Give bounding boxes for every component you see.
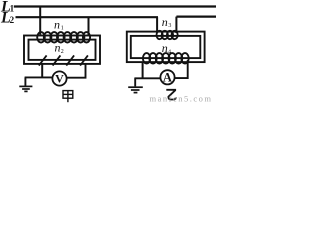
ground symbol right xyxy=(128,87,143,92)
ground stub right xyxy=(134,78,136,86)
wire row to ammeter (left) xyxy=(134,77,160,79)
label yi (乙) xyxy=(166,90,176,100)
wire L2 bus line right segment xyxy=(176,16,216,18)
svg-text:1: 1 xyxy=(61,26,64,32)
svg-text:manfen5.com: manfen5.com xyxy=(150,93,213,103)
wire from L1 down to coil n1 left end xyxy=(39,7,41,35)
transformer T1 core inner rectangle xyxy=(29,40,96,60)
wire L1 bus line xyxy=(14,5,216,7)
wire from L2 down to coil n3 left end xyxy=(156,17,158,33)
transformer T2 core inner rectangle xyxy=(131,36,201,58)
wire ammeter right and up to coil n4 right end xyxy=(175,60,188,79)
svg-text:2: 2 xyxy=(10,15,15,25)
transformer T1 core outer rectangle xyxy=(24,36,100,64)
wire L2 bus line left segment xyxy=(16,16,159,18)
wire row to voltmeter (left) xyxy=(25,76,53,78)
ground symbol left xyxy=(19,86,32,91)
svg-text:V: V xyxy=(55,72,64,86)
svg-text:n: n xyxy=(55,40,61,54)
secondary coil n4 xyxy=(143,53,189,63)
ground stub left xyxy=(24,77,26,85)
svg-text:3: 3 xyxy=(168,23,171,29)
voltmeter V1 circle xyxy=(52,71,66,85)
transformer T2 core outer rectangle xyxy=(127,32,205,62)
svg-text:A: A xyxy=(163,71,172,85)
secondary coil n2 slashes xyxy=(39,55,88,65)
wire voltmeter right and up to coil n2 right end xyxy=(67,64,86,79)
label jia (甲) xyxy=(63,91,73,103)
ammeter A1 circle xyxy=(160,70,174,84)
primary coil n3 xyxy=(157,31,178,39)
wire from coil n4 left end down xyxy=(142,62,144,78)
wire from L2 right segment down to coil n3 right end xyxy=(175,17,177,33)
svg-text:n: n xyxy=(162,15,168,29)
svg-text:2: 2 xyxy=(61,49,64,55)
primary coil n1 xyxy=(37,32,90,42)
wire from coil n2 left end down xyxy=(41,64,43,78)
svg-text:n: n xyxy=(54,18,60,32)
wire from L2 down to coil n1 right end xyxy=(88,17,90,35)
